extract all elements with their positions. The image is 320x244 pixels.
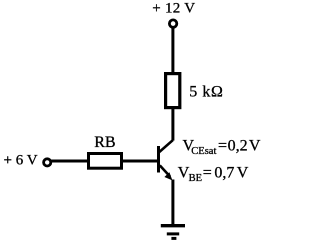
svg-text:+ 6 V: + 6 V <box>4 153 38 169</box>
svg-text:+ 12 V: + 12 V <box>152 1 195 17</box>
svg-text:VBE=0,7V: VBE=0,7V <box>178 165 249 184</box>
svg-text:5 kΩ: 5 kΩ <box>189 83 223 100</box>
svg-text:VCEsat=0,2V: VCEsat=0,2V <box>183 138 261 157</box>
svg-text:RB: RB <box>94 134 115 151</box>
